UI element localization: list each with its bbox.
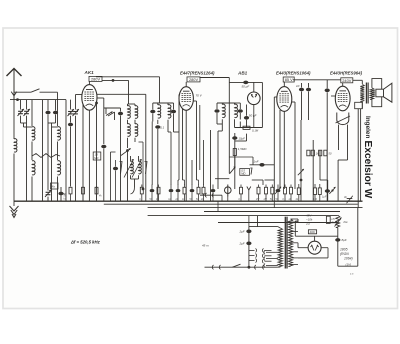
plug P2 [255,265,256,269]
svg-text:E443H(RES964): E443H(RES964) [330,71,363,76]
wire det out [246,134,248,141]
capacitor C31 2uF [246,230,251,234]
voltage box 280V AK1 [89,76,102,81]
ground bus [14,200,363,202]
svg-text:2M: 2M [255,198,259,201]
wire x218 down [217,201,219,212]
svg-text:E447(RENS1264): E447(RENS1264) [180,71,215,76]
filament cup E443H [337,113,349,125]
svg-text:(1V): (1V) [346,263,352,267]
transformer T3 secondary [288,219,292,267]
svg-text:1M: 1M [263,198,266,201]
svg-text:1,5MΩ: 1,5MΩ [238,147,247,151]
svg-text:8μF: 8μF [342,238,347,242]
resistor R12 [284,185,286,188]
tube E447 U2 [179,87,193,111]
jack J1 [225,187,232,194]
svg-text:1805: 1805 [340,248,348,252]
capacitor C18 10uF [299,88,304,92]
resistor R27 zig [336,215,340,227]
wire column x110 [110,152,112,201]
selector taps right [265,249,272,251]
resistor R2 volume [233,149,236,156]
svg-text:70 V: 70 V [196,94,203,98]
trimmer arrow x301 [298,169,304,175]
capacitor C4 [55,100,57,111]
wire column x147 [97,93,146,95]
wire T4 bottom [361,102,363,109]
wire AB1 bottom [235,127,263,129]
resistor R21 box [307,150,310,156]
coil L6 osc [128,106,131,119]
voltage box 85V [283,77,294,82]
resistor R9 [258,185,260,188]
switch S4 osc [127,151,129,202]
mains line [205,266,249,268]
svg-text:240V: 240V [342,78,351,83]
bus line 6 [218,222,338,224]
wire input bus [10,99,66,101]
wire E443 cathode [283,111,285,189]
capacitor C16 50uF det [244,116,249,120]
coil L1 antenna [13,100,15,139]
wire E447 topcap [185,82,187,87]
wire col x313 [312,140,314,201]
svg-text:AK1: AK1 [84,70,95,75]
plug P1 [212,265,213,269]
wire AK1 pin3 [96,101,98,201]
wire x229 down [228,103,230,174]
resistor R10 [265,185,267,188]
node A junction [16,98,19,101]
capacitor C19 [306,88,311,92]
wire E447 anode line [200,77,230,79]
svg-text:2Ω: 2Ω [305,222,311,226]
wire selector top [249,226,278,228]
wire AK1 pin2 [82,104,84,201]
wire column x203 [199,105,201,170]
coil L3 [32,161,35,175]
coil L4 [57,100,59,126]
T3 secondary taps [291,221,299,223]
svg-text:kΩ: kΩ [64,197,67,200]
wire y180 stubs [252,179,263,181]
capacitor C10 IFT1 [150,110,155,114]
wire column x141 [141,104,143,148]
wire column x210 [210,130,212,201]
wire col x320 [319,150,321,180]
svg-text:c.v.: c.v. [350,273,354,276]
wire speaker loop [372,79,382,89]
wire E443 anode line [293,79,323,81]
capacitor C5 [65,100,67,201]
switch blade right [145,162,148,175]
wire padder bottom [131,178,139,180]
resistor R4 [158,185,160,188]
capacitor C22 [151,185,153,190]
transformer T3 primary [278,228,282,267]
capacitor C15 50uF [243,81,248,85]
svg-text:1μF: 1μF [322,195,327,199]
resistor R7 [203,185,205,188]
svg-text:40Ω: 40Ω [310,230,316,234]
svg-text:85 V: 85 V [285,77,293,82]
padder arrows [124,160,134,178]
capacitor C23 [170,185,172,190]
capacitor C13 IFT2 [214,109,219,113]
wire AK1 cathode [88,110,90,201]
pickup contacts [205,193,206,197]
wire E443 topcap [283,82,285,87]
wire osc link [104,107,121,109]
wire AB1 in [253,82,255,92]
resistor R11 [271,185,273,188]
wire x270 down [273,201,275,208]
coil T4 primary [360,85,364,102]
wire x248 up [248,216,250,227]
switch blade left [120,162,123,175]
resistor R26 [326,216,330,223]
resistor R13 [290,185,292,188]
capacitor C9 [118,112,123,116]
capacitor C27 [277,185,279,190]
wire rect top [314,236,316,241]
capacitor C12 01 [155,125,160,129]
capacitor C32 2uF [246,242,251,246]
wire 1nF line [250,164,275,166]
wire E447 pin left [182,109,184,180]
wire AK1 topcap [88,81,90,84]
wire E447 screen [193,100,196,102]
coil L6b osc [135,106,138,119]
wire IFT1 sec down [167,124,169,132]
svg-text:Ingelen: Ingelen [364,116,371,138]
coil T4 secondary [370,88,374,100]
svg-text:1nF: 1nF [254,160,259,164]
bus line 3 [148,207,363,209]
box 05MOhm [240,169,250,176]
svg-text:50 μF: 50 μF [242,85,250,89]
wire join2 [48,122,56,124]
capacitor C20 grid [325,89,330,93]
capacitor C8 osc [101,145,106,149]
wire anode drop [128,80,130,104]
resistor R5 [184,185,186,188]
coil L5 [58,161,61,175]
wire IFT1 cap down [173,122,175,133]
wire E447 cathode [185,110,187,201]
wire AK1 anode line [102,79,129,81]
wire IFT2 top [217,102,235,104]
core T4 [365,83,367,104]
capacitor C24 [177,185,179,190]
T3 primary taps [266,251,278,253]
wire AB1 top line [229,81,262,83]
capacitor C17 det [232,136,237,140]
resistor R31 [82,186,84,187]
tube E443 U4 [277,87,292,112]
wire antenna to switch [14,91,31,93]
resistor R8 [240,185,242,188]
capacitor C11 IFT1 [171,110,176,114]
svg-text:280V: 280V [189,77,198,82]
svg-text:10: 10 [296,84,300,88]
pot arrow x278 [275,187,281,194]
wire IFT2 prim down [221,124,223,131]
capacitor C25 [191,185,193,190]
bus line 2 [104,203,358,205]
trimmer C1 [20,100,22,110]
wire right rail down [357,208,359,267]
capacitor C14 IFT2 [238,109,243,113]
voltage selector column [248,227,250,268]
speaker LS1 [376,89,384,97]
coil L8 padder b [139,161,142,174]
wire E443 grid [274,96,277,98]
coil L8 padder a [131,161,134,174]
capacitor C33 8uF [335,238,340,242]
svg-text:45 m: 45 m [202,244,209,248]
selector taps [249,249,255,251]
svg-text:AB1: AB1 [237,71,248,76]
wire 1nF top [229,156,253,158]
coil L7b osc [135,124,138,137]
wire AB1 loop [261,82,263,127]
trimmer C2 [26,100,28,110]
switch S3 osc [106,112,113,116]
wire E443H topcap [342,83,344,86]
svg-text:MΩ: MΩ [241,172,245,176]
resistor R23 [298,184,300,188]
tube AK1 U1 [82,85,97,111]
svg-text:(RGN: (RGN [340,252,349,256]
junction mains [248,266,251,269]
coil L7 osc [128,124,131,137]
wire AK1 grid left [76,94,82,96]
voltage box 280V E447 [187,77,200,82]
svg-text:100: 100 [313,198,318,201]
box 1MOhm [93,152,101,160]
resistor R24b [319,184,321,188]
tube E443H U5 [335,86,350,111]
capacitor C7 [58,192,63,196]
wire rect top line [295,235,338,237]
wire AB1 left leg [239,122,241,128]
box Abst [51,183,59,189]
coil L10 IFT1 secondary [167,103,169,105]
wire bottom left rail [294,221,296,236]
svg-text:kΩ: kΩ [168,198,171,201]
wire AK1 side [70,100,72,110]
wire right rail [360,109,362,201]
capacitor C3 [47,100,49,111]
wire y178 stub [215,178,229,180]
capacitor C26 [212,185,214,190]
switch blade det [250,168,252,175]
resistor R6 [198,185,200,188]
wire E447 grid [178,96,180,132]
resistor R24 [314,184,316,188]
wire AK1 screen line [96,76,160,78]
wire sec top [297,219,299,222]
resistor R3 [141,185,143,188]
junction anode [112,79,115,82]
bus line 4 [204,211,340,213]
tube AB1 U3 [248,92,261,105]
coil L11 IFT2 primary [221,103,223,105]
svg-text:50 μF: 50 μF [249,114,257,118]
wire E443 pin [279,110,281,189]
antenna A1 [7,69,22,77]
resistor R32 [96,186,98,187]
svg-text:Δf = 520,5 kHz: Δf = 520,5 kHz [70,240,101,245]
svg-text:Ab: Ab [50,185,55,189]
switch S5 mains [232,264,240,267]
bus line 5 [148,215,338,217]
wire filter right [337,228,339,267]
Y element [247,187,251,191]
svg-text:E443(REHS1064): E443(REHS1064) [276,71,311,76]
voltage box 240V [341,78,353,83]
wire col x301 [300,120,302,201]
wire R27 arrow [335,218,342,227]
svg-text:2μF: 2μF [239,230,245,234]
coil L12 IFT2 secondary [234,103,236,105]
rectifier tube U6 [308,241,321,254]
trimmer C6 [46,191,51,193]
pot arrow x332 [329,187,335,194]
wire trimmer join [21,122,27,124]
capacitor osc pad [113,167,118,171]
wire osc grid [97,97,104,99]
resistor R22 box [319,150,322,156]
svg-text:Excelsior W: Excelsior W [362,141,373,199]
coil L2 [31,100,33,126]
svg-text:0,1M: 0,1M [252,129,259,133]
resistor R28 [308,230,316,234]
potentiometer arrow [230,167,236,174]
wire drop to node A [57,92,59,99]
svg-text:0,1: 0,1 [160,126,165,130]
wire rect left [298,247,308,249]
wire col x327 [327,180,329,201]
wire rect right [321,247,328,249]
wire column [42,100,44,201]
resistor R30 [69,187,72,194]
wire E443H top line [323,79,342,81]
junction osc [126,149,129,152]
ground GND1 [13,201,15,206]
svg-text:10μF: 10μF [239,137,246,141]
transformer T3 core [284,217,286,269]
coil L9 IFT1 primary [157,103,159,105]
bandswitch S2 wavy [32,154,60,158]
wire IFT1 top [153,102,174,104]
capacitor C21 bus [347,198,353,200]
svg-text:1064): 1064) [344,257,353,261]
svg-text:2μF: 2μF [239,242,245,246]
resistor R1 det [243,126,250,129]
wire E443 screen [292,101,295,103]
wire E443H grid [331,95,335,97]
switch S1 antenna [31,89,40,92]
wire col x338 [337,160,339,201]
